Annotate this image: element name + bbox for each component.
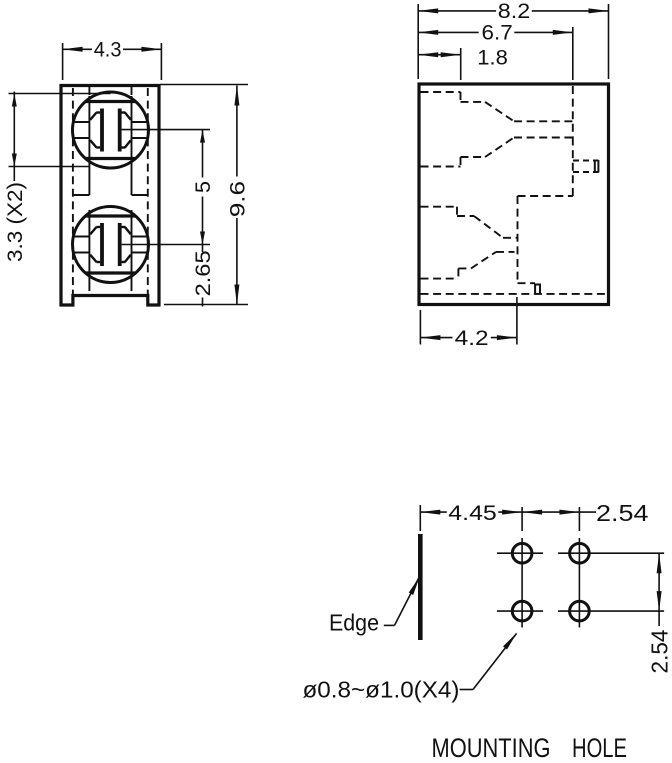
dim 2.54 horizontal line bbox=[522, 510, 542, 515]
lead frame vertical left (through LED1) bbox=[88, 87, 90, 95]
svg-text:8.2: 8.2 bbox=[498, 0, 530, 23]
svg-text:3.3 (X2): 3.3 (X2) bbox=[4, 182, 27, 262]
svg-text:2.54: 2.54 bbox=[647, 629, 672, 673]
lower lead bottom hidden line bbox=[518, 282, 536, 284]
chip bar right bbox=[118, 223, 122, 266]
lead frame jog left bbox=[73, 194, 90, 196]
dim 8.2 extension lines bbox=[417, 4, 419, 79]
chip bar right bbox=[118, 109, 122, 152]
svg-text:5: 5 bbox=[192, 181, 215, 193]
svg-text:4.45: 4.45 bbox=[448, 502, 497, 525]
dim 9.6 leader bottom bbox=[164, 304, 248, 306]
dim 2.54 vertical line bbox=[658, 553, 660, 626]
bar serifs bbox=[96, 111, 100, 113]
dim 9.6 line bbox=[236, 86, 238, 177]
lens top chord bbox=[86, 100, 136, 103]
chip bar left bbox=[100, 223, 104, 266]
dim 3.3 leader top (tangent to LED1 top) bbox=[9, 93, 111, 95]
dim 2.65 line bbox=[202, 245, 204, 253]
lead frame jog right bbox=[132, 194, 148, 196]
svg-text:1.8: 1.8 bbox=[477, 46, 508, 69]
dim 4.45 line bbox=[420, 511, 447, 513]
bar serifs bbox=[96, 226, 100, 228]
hidden edge line left bbox=[72, 88, 74, 294]
dim 4.2 extension lines bbox=[419, 310, 421, 345]
svg-text:4.2: 4.2 bbox=[455, 327, 489, 350]
dim 8.2 line bbox=[418, 10, 496, 12]
lead down-channel hidden line bbox=[517, 196, 519, 283]
reflector waist lines left bbox=[73, 121, 89, 123]
front view body outline bbox=[61, 86, 159, 306]
dim 3.3 line bbox=[13, 92, 15, 182]
svg-text:ø0.8~ø1.0(X4): ø0.8~ø1.0(X4) bbox=[303, 677, 460, 703]
PCB edge line bbox=[418, 534, 423, 640]
lead step hidden line bbox=[572, 138, 574, 197]
anode tab end bbox=[595, 160, 599, 173]
lead frame vertical right (through LED2) bbox=[131, 210, 133, 283]
dim 1.8 line bbox=[418, 54, 461, 56]
svg-text:Edge: Edge bbox=[329, 610, 379, 636]
dim 6.7 extension line bbox=[572, 27, 574, 80]
dim 4.3 line bbox=[63, 48, 92, 50]
dim 4.2 line bbox=[420, 337, 452, 339]
hole column centerline 1 bbox=[521, 507, 523, 531]
mounting hole top-right bbox=[570, 543, 590, 563]
mounting hole bottom-left bbox=[512, 601, 532, 621]
LED lens circle at y=130 bbox=[73, 92, 149, 168]
lens bottom chord bbox=[86, 157, 136, 160]
seating plane hidden line bbox=[421, 293, 608, 295]
mounting hole bottom-right bbox=[570, 601, 590, 621]
reflector waist lines left bbox=[73, 236, 89, 238]
dim 3.3 leader bottom (tangent to LED1 bottom) bbox=[9, 166, 91, 168]
lens bottom chord bbox=[86, 271, 136, 274]
dim 5 line bbox=[202, 130, 204, 178]
svg-text:HOLE: HOLE bbox=[572, 733, 627, 763]
dim 1.8 extension line bbox=[460, 48, 462, 80]
reflector cup diagonals bbox=[90, 227, 96, 234]
svg-text:4.3: 4.3 bbox=[94, 38, 122, 61]
svg-text:MOUNTING: MOUNTING bbox=[432, 733, 551, 763]
reflector cup diagonals bbox=[90, 113, 96, 120]
reflector waist lines right bbox=[132, 236, 148, 238]
lead frame vertical left (through LED2) bbox=[88, 210, 90, 283]
dim 6.7 line bbox=[418, 31, 479, 33]
chip bar left bbox=[100, 109, 104, 152]
hole row centerline lower bbox=[497, 610, 543, 612]
lower lead hidden outline bbox=[421, 206, 458, 208]
hidden edge line right bbox=[147, 88, 149, 294]
upper lead end / 6.7 reference hidden line bbox=[572, 86, 574, 138]
svg-text:2.65: 2.65 bbox=[192, 250, 215, 296]
mounting hole top-left bbox=[512, 543, 532, 563]
LED lens circle at y=244.5 bbox=[73, 207, 149, 283]
lead foot bbox=[534, 284, 541, 294]
hole diameter leader line bbox=[460, 689, 473, 691]
Edge leader line bbox=[384, 624, 395, 626]
dim 9.6 leader top bbox=[160, 84, 248, 86]
svg-text:2.54: 2.54 bbox=[596, 500, 649, 526]
LED2 center leader to dim 5/2.65 bbox=[122, 244, 210, 246]
side view body outline bbox=[419, 84, 609, 305]
anode tab hidden lines bbox=[573, 160, 599, 162]
svg-text:9.6: 9.6 bbox=[227, 181, 250, 217]
edge extension tick bbox=[419, 505, 421, 531]
LED1 center leader to dim 5 bbox=[122, 129, 210, 131]
lead frame vertical right (through LED1) bbox=[131, 87, 133, 95]
upper lead hidden outline bbox=[421, 91, 461, 93]
dim 4.3 extension lines bbox=[62, 43, 64, 80]
svg-text:6.7: 6.7 bbox=[482, 22, 513, 45]
hole row centerline upper bbox=[497, 552, 543, 554]
hole column centerline 2 bbox=[578, 507, 580, 531]
lens top chord bbox=[86, 214, 136, 217]
reflector waist lines right bbox=[132, 121, 148, 123]
